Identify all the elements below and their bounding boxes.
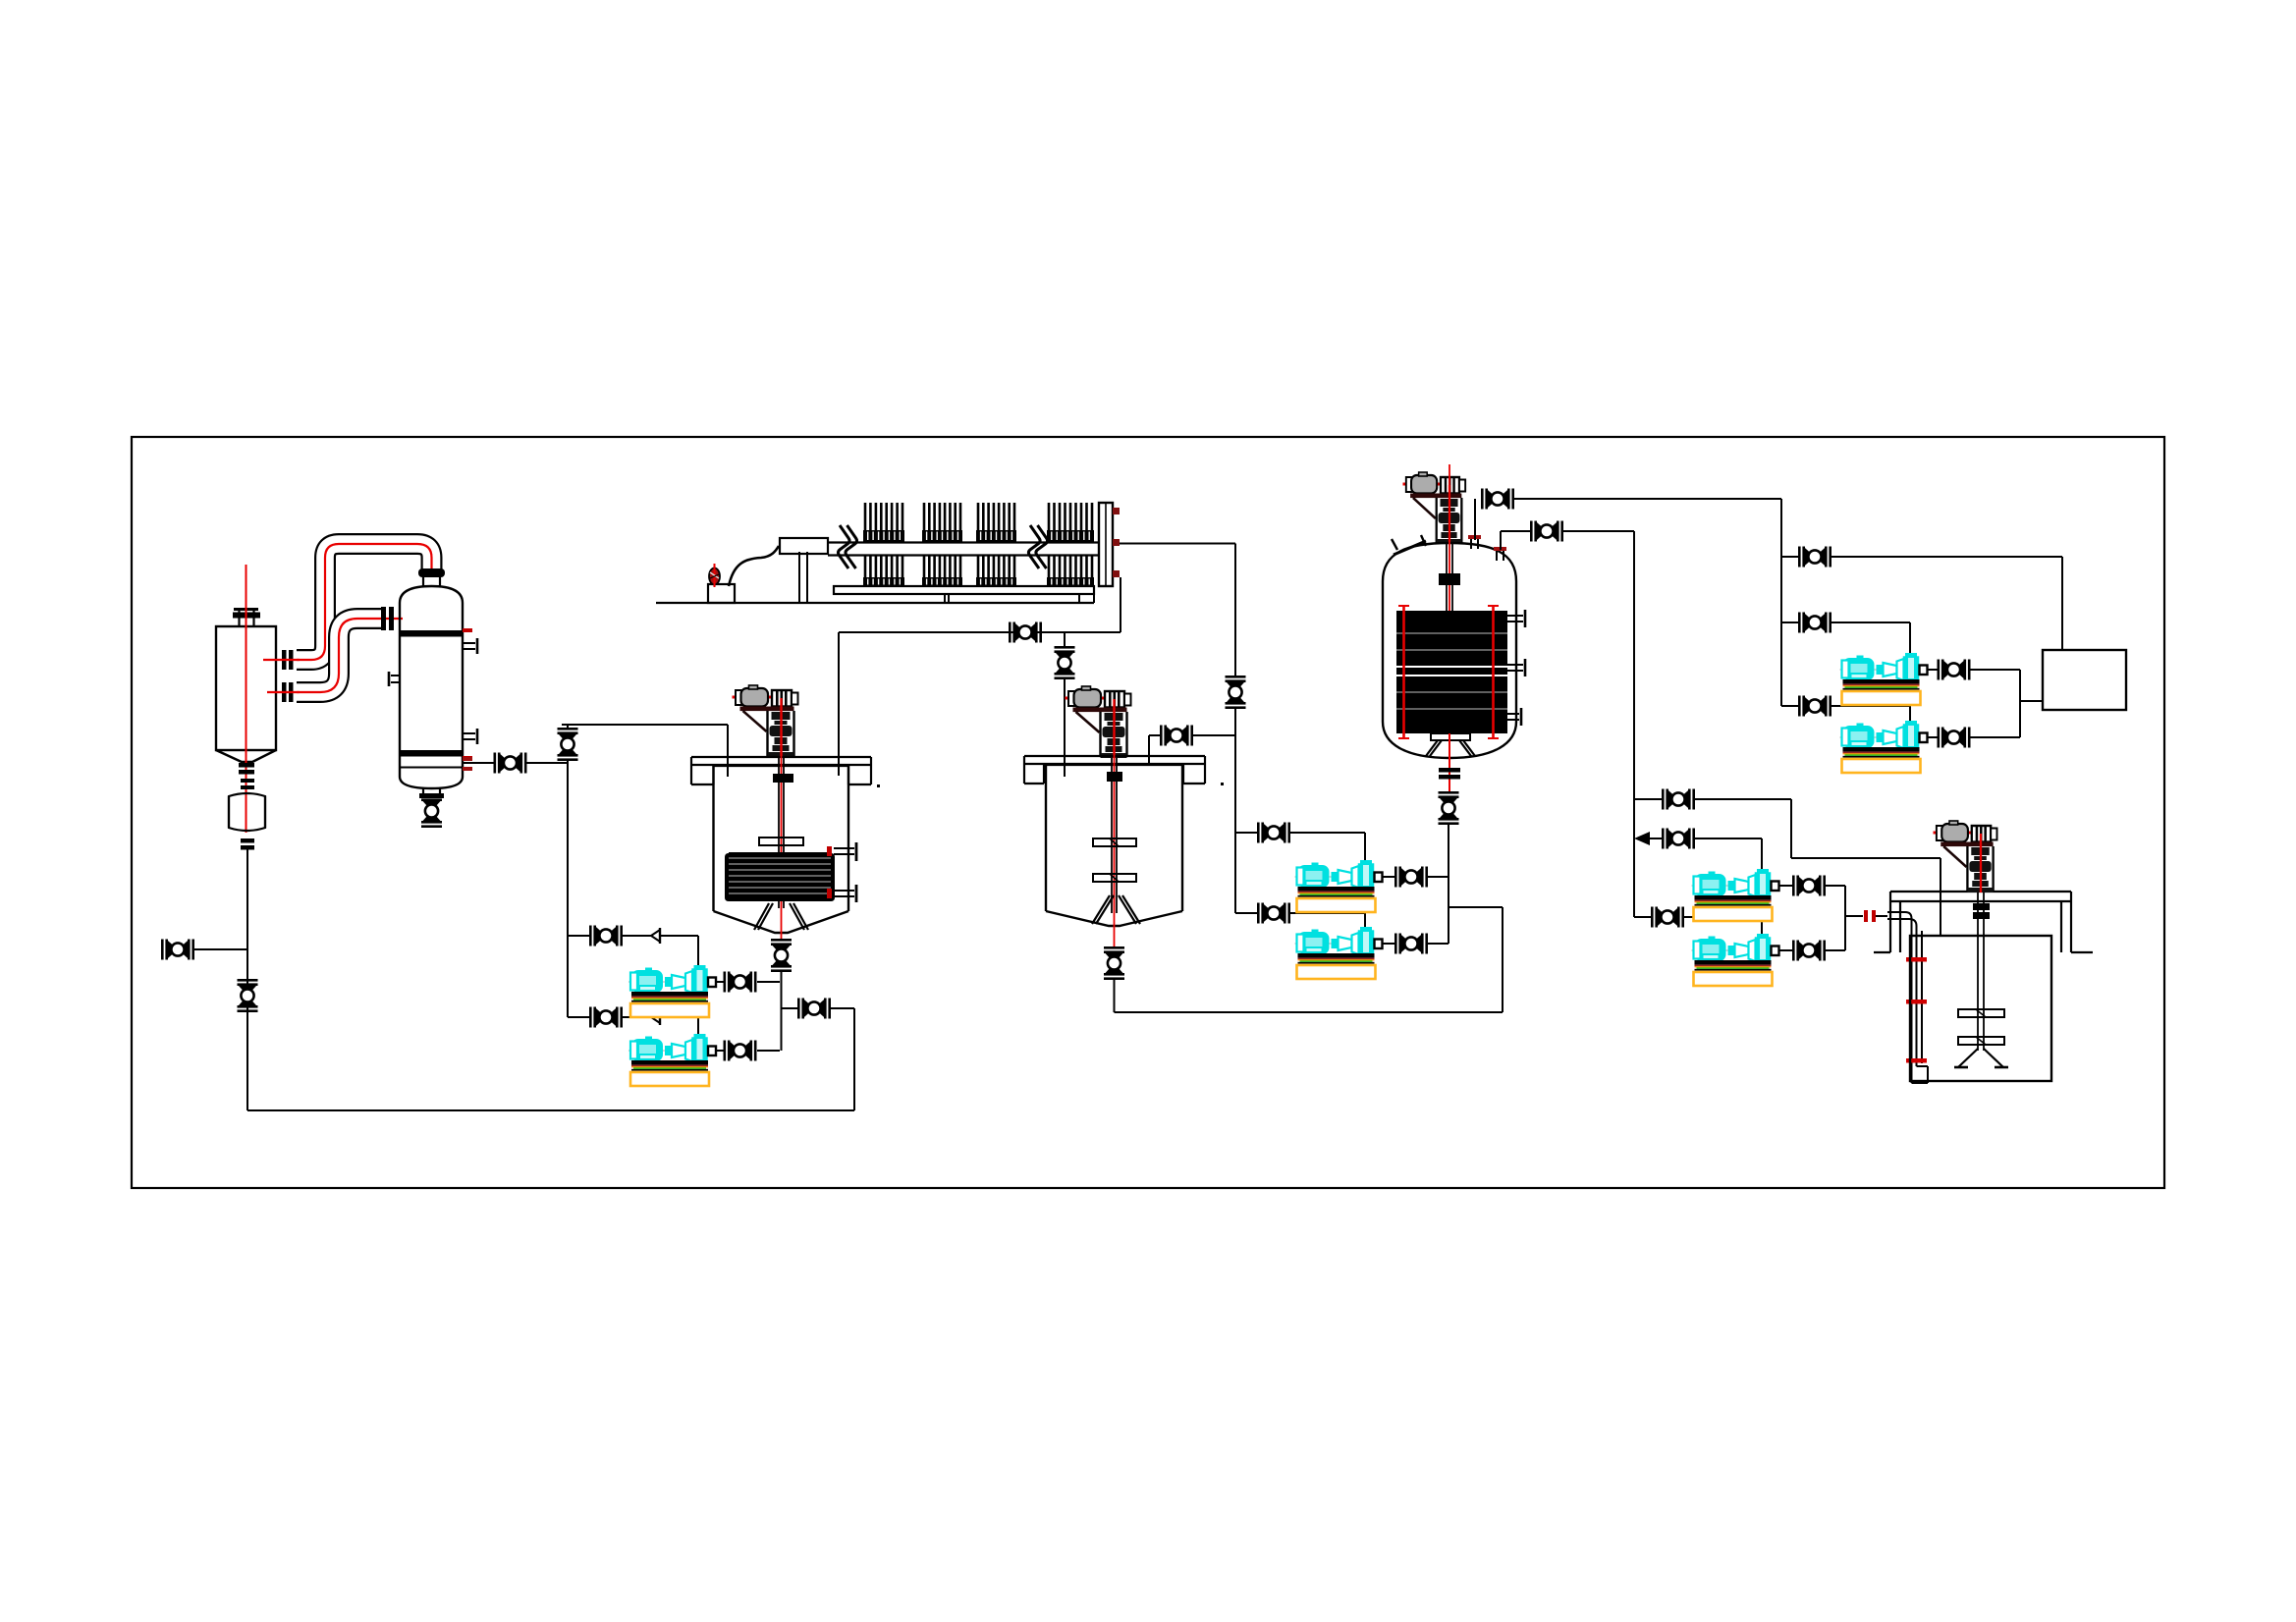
V3 top nozzle 1 xyxy=(1468,535,1481,549)
R1 agitator shaft xyxy=(779,699,784,939)
R2 paddle lower xyxy=(1093,874,1136,882)
tank dip pipe xyxy=(1887,912,1928,1083)
valve pump2 discharge xyxy=(724,1041,757,1061)
agitator drive V3 xyxy=(1403,472,1466,544)
wire branch pump8 xyxy=(1634,917,1762,934)
valve branch box xyxy=(1798,547,1831,568)
valve pump2 suction xyxy=(589,1007,623,1028)
V3 davit xyxy=(1392,535,1426,555)
V3 valve2 stub xyxy=(1501,531,1530,550)
valve V3 vapor 2 xyxy=(1530,521,1563,542)
wire press outlet top xyxy=(1120,544,1235,676)
tank tripod xyxy=(1954,1049,2008,1067)
column right nozzle upper xyxy=(463,628,477,654)
column right nozzle lower xyxy=(463,729,477,760)
valve pump1 discharge xyxy=(724,972,757,993)
wire pump1 discharge xyxy=(716,981,780,983)
V3 shaft xyxy=(1447,464,1452,617)
catch pot bottom flange xyxy=(241,838,254,850)
drain stub xyxy=(194,948,247,950)
wire R2 bottom line xyxy=(1115,907,1503,1012)
column outlet nozzle xyxy=(400,757,494,771)
speck near R2 beam xyxy=(1221,783,1224,785)
wire R1 press drain feed xyxy=(838,632,840,776)
filter press plate pack 4 xyxy=(1047,503,1094,586)
separator centerline xyxy=(246,565,247,833)
valve press drain xyxy=(1009,622,1042,643)
press break symbol left xyxy=(838,525,856,568)
valve R1 bottom xyxy=(771,939,792,972)
wire pump5 discharge xyxy=(1928,670,2043,701)
wire R1 drain vertical xyxy=(781,972,783,1051)
separator bottom flanges xyxy=(239,763,254,789)
pump P5 xyxy=(1840,653,1930,705)
valve pump6 discharge xyxy=(1938,728,1971,748)
valve separator drain xyxy=(238,979,258,1012)
wire V3 vapor line 1 xyxy=(1514,499,1781,706)
valve pump4 discharge xyxy=(1394,934,1428,954)
V3 bottom support xyxy=(1426,733,1475,756)
press tray legs xyxy=(945,594,1094,603)
press gauge xyxy=(709,564,720,587)
wire pump1 branch xyxy=(568,936,698,965)
R1 support beam xyxy=(691,757,871,784)
valve R1 drain branch xyxy=(797,999,831,1019)
column neck xyxy=(423,577,440,586)
valve pump7 discharge xyxy=(1792,876,1826,896)
liquid pipe lower run xyxy=(267,619,403,692)
R1 coil nozzle lower xyxy=(827,885,856,902)
R1 paddle xyxy=(759,838,803,845)
press rails xyxy=(828,543,1099,556)
condensate box xyxy=(2043,650,2126,710)
catch pot V2 xyxy=(229,793,265,831)
pump P4 xyxy=(1295,927,1385,979)
V3 top nozzle 2 xyxy=(1494,547,1506,561)
valve R2 top feed xyxy=(1160,726,1193,746)
press feed pipe xyxy=(729,546,779,586)
column left inlet flanges xyxy=(381,607,394,630)
vapor pipe upper run xyxy=(263,544,432,660)
wire pump4 branch xyxy=(1235,913,1365,927)
filter press plate pack 3 xyxy=(976,503,1016,586)
column tube sheet lower xyxy=(400,750,463,757)
arrow vent xyxy=(1634,832,1650,845)
wire pump3 discharge xyxy=(1383,876,1449,878)
agitator drive R2 xyxy=(1066,686,1131,758)
wire manifold top xyxy=(562,724,728,726)
pump P8 xyxy=(1692,934,1781,986)
wire press drain riser xyxy=(1120,577,1121,632)
tank paddle lower xyxy=(1958,1037,2004,1045)
valve pump5 discharge xyxy=(1938,660,1971,680)
R2 tripod xyxy=(1092,895,1140,924)
R1 heating coil xyxy=(725,852,835,901)
valve press manifold xyxy=(1226,676,1246,709)
wire pump4 discharge xyxy=(1383,943,1449,945)
wire branch pump5 xyxy=(1781,622,1910,653)
flag pump2 xyxy=(651,1009,660,1025)
R1 tank body xyxy=(714,766,849,933)
wire press branch R2 drop xyxy=(1064,679,1066,777)
filter press plate pack 1 xyxy=(863,503,904,586)
pump P7 xyxy=(1692,869,1781,921)
wire R1 feed drop xyxy=(727,725,729,777)
pump P2 xyxy=(629,1034,718,1086)
valve branch pump8 xyxy=(1651,907,1684,928)
R1 coil nozzle upper xyxy=(827,842,856,861)
V3 vessel body xyxy=(1383,543,1516,758)
V3 top valve1 stub xyxy=(1474,499,1476,540)
press ground line xyxy=(656,602,1094,604)
valve V3 bottom xyxy=(1439,791,1459,825)
R1 tripod xyxy=(754,903,808,930)
border frame xyxy=(132,437,2164,1188)
filter press plate pack 2 xyxy=(922,503,962,586)
wire pump2 branch xyxy=(568,1017,698,1034)
mix tank beam xyxy=(1874,892,2093,952)
separator lower nozzle flanges xyxy=(282,682,294,702)
wire R1 drain branch xyxy=(782,1007,855,1009)
column left stub nozzle xyxy=(389,672,400,686)
wire branch pump7 xyxy=(1650,838,1762,869)
wire pump7 discharge xyxy=(1779,886,1846,916)
tank paddle upper xyxy=(1958,1009,2004,1017)
press tray xyxy=(834,586,1094,594)
column tube sheet upper xyxy=(400,630,463,637)
wire column outlet to manifold xyxy=(526,762,568,764)
R2 agitator shaft xyxy=(1112,700,1117,946)
press head block xyxy=(780,538,828,554)
wire R2 top feed xyxy=(1192,734,1235,736)
valve branch pump6 xyxy=(1798,696,1831,717)
wire press drain line xyxy=(839,631,1121,633)
valve pump4 suction xyxy=(1257,903,1290,924)
valve branch pump7 xyxy=(1662,829,1695,849)
valve column bottom xyxy=(421,794,442,828)
pump P6 xyxy=(1840,721,1930,773)
valve pump3 suction xyxy=(1257,823,1290,843)
valve V3 vapor 1 xyxy=(1481,489,1514,510)
wire separator drain xyxy=(246,849,248,1110)
press pedestal xyxy=(708,584,735,603)
wire manifold riser top xyxy=(567,725,569,728)
column top flange xyxy=(418,568,445,577)
wire manifold vertical xyxy=(567,761,569,1017)
V3 coil nozzle 2 xyxy=(1507,659,1525,676)
R2 support beam xyxy=(1024,756,1205,784)
R2 top valve stub xyxy=(1149,735,1161,766)
agitator drive R1 xyxy=(733,685,798,757)
valve pump8 discharge xyxy=(1792,941,1826,961)
press head leg xyxy=(799,552,807,603)
speck near R1 beam xyxy=(877,784,880,787)
valve R2 bottom xyxy=(1104,946,1124,980)
wire tank feed header xyxy=(1845,915,1863,917)
wire pump2 discharge xyxy=(716,1050,780,1052)
R2 paddle upper xyxy=(1093,838,1136,846)
valve manifold xyxy=(558,728,578,761)
column E1 shell xyxy=(400,586,463,788)
separator vessel V1 xyxy=(216,610,276,763)
wire vessel drain vertical xyxy=(1449,825,1503,944)
V3 bottom outlet xyxy=(1439,733,1460,791)
tank shaft flange xyxy=(1973,903,1990,919)
tank feed fitting xyxy=(1864,910,1887,922)
press end plate xyxy=(1099,503,1120,586)
valve branch tank feed xyxy=(1662,789,1695,810)
pump P1 xyxy=(629,965,718,1017)
R2 shaft flange xyxy=(1107,772,1122,782)
pump P3 xyxy=(1295,860,1385,912)
V3 coil nozzle 1 xyxy=(1507,610,1525,627)
R2 tank body xyxy=(1044,765,1183,926)
wire bottom return line xyxy=(247,1109,854,1111)
wire press drain branch R2 xyxy=(1064,632,1066,646)
wire V3 vapor line 2 xyxy=(1563,531,1634,917)
valve branch pump5 xyxy=(1798,613,1831,633)
V3 coil xyxy=(1396,606,1507,738)
wire branch pump6 xyxy=(1781,706,1910,721)
mix tank body xyxy=(1910,936,2051,1081)
valve column outlet xyxy=(494,753,527,774)
valve drain stub xyxy=(161,940,194,960)
valve press branch R2 xyxy=(1055,646,1075,679)
valve pump3 discharge xyxy=(1394,867,1428,888)
V3 coil nozzle 3 xyxy=(1507,708,1521,726)
wire branch tank feed xyxy=(1634,799,1941,936)
wire pump6 discharge xyxy=(1928,701,2020,737)
wire press manifold vertical xyxy=(1234,709,1236,913)
column bottom neck xyxy=(419,788,444,798)
wire branch box xyxy=(1781,557,2062,649)
R1 shaft flange xyxy=(773,774,793,783)
valve pump1 suction xyxy=(589,926,623,946)
press break symbol right xyxy=(1028,525,1047,568)
wire pump3 branch xyxy=(1235,833,1365,860)
wire return riser xyxy=(853,1008,855,1110)
separator upper nozzle flanges xyxy=(282,650,294,670)
wire pump8 discharge xyxy=(1779,916,1846,950)
agitator drive tank xyxy=(1934,821,1997,892)
tank shaft xyxy=(1978,892,1984,1051)
V3 shaft flange xyxy=(1439,573,1460,585)
flag pump1 xyxy=(651,928,660,944)
